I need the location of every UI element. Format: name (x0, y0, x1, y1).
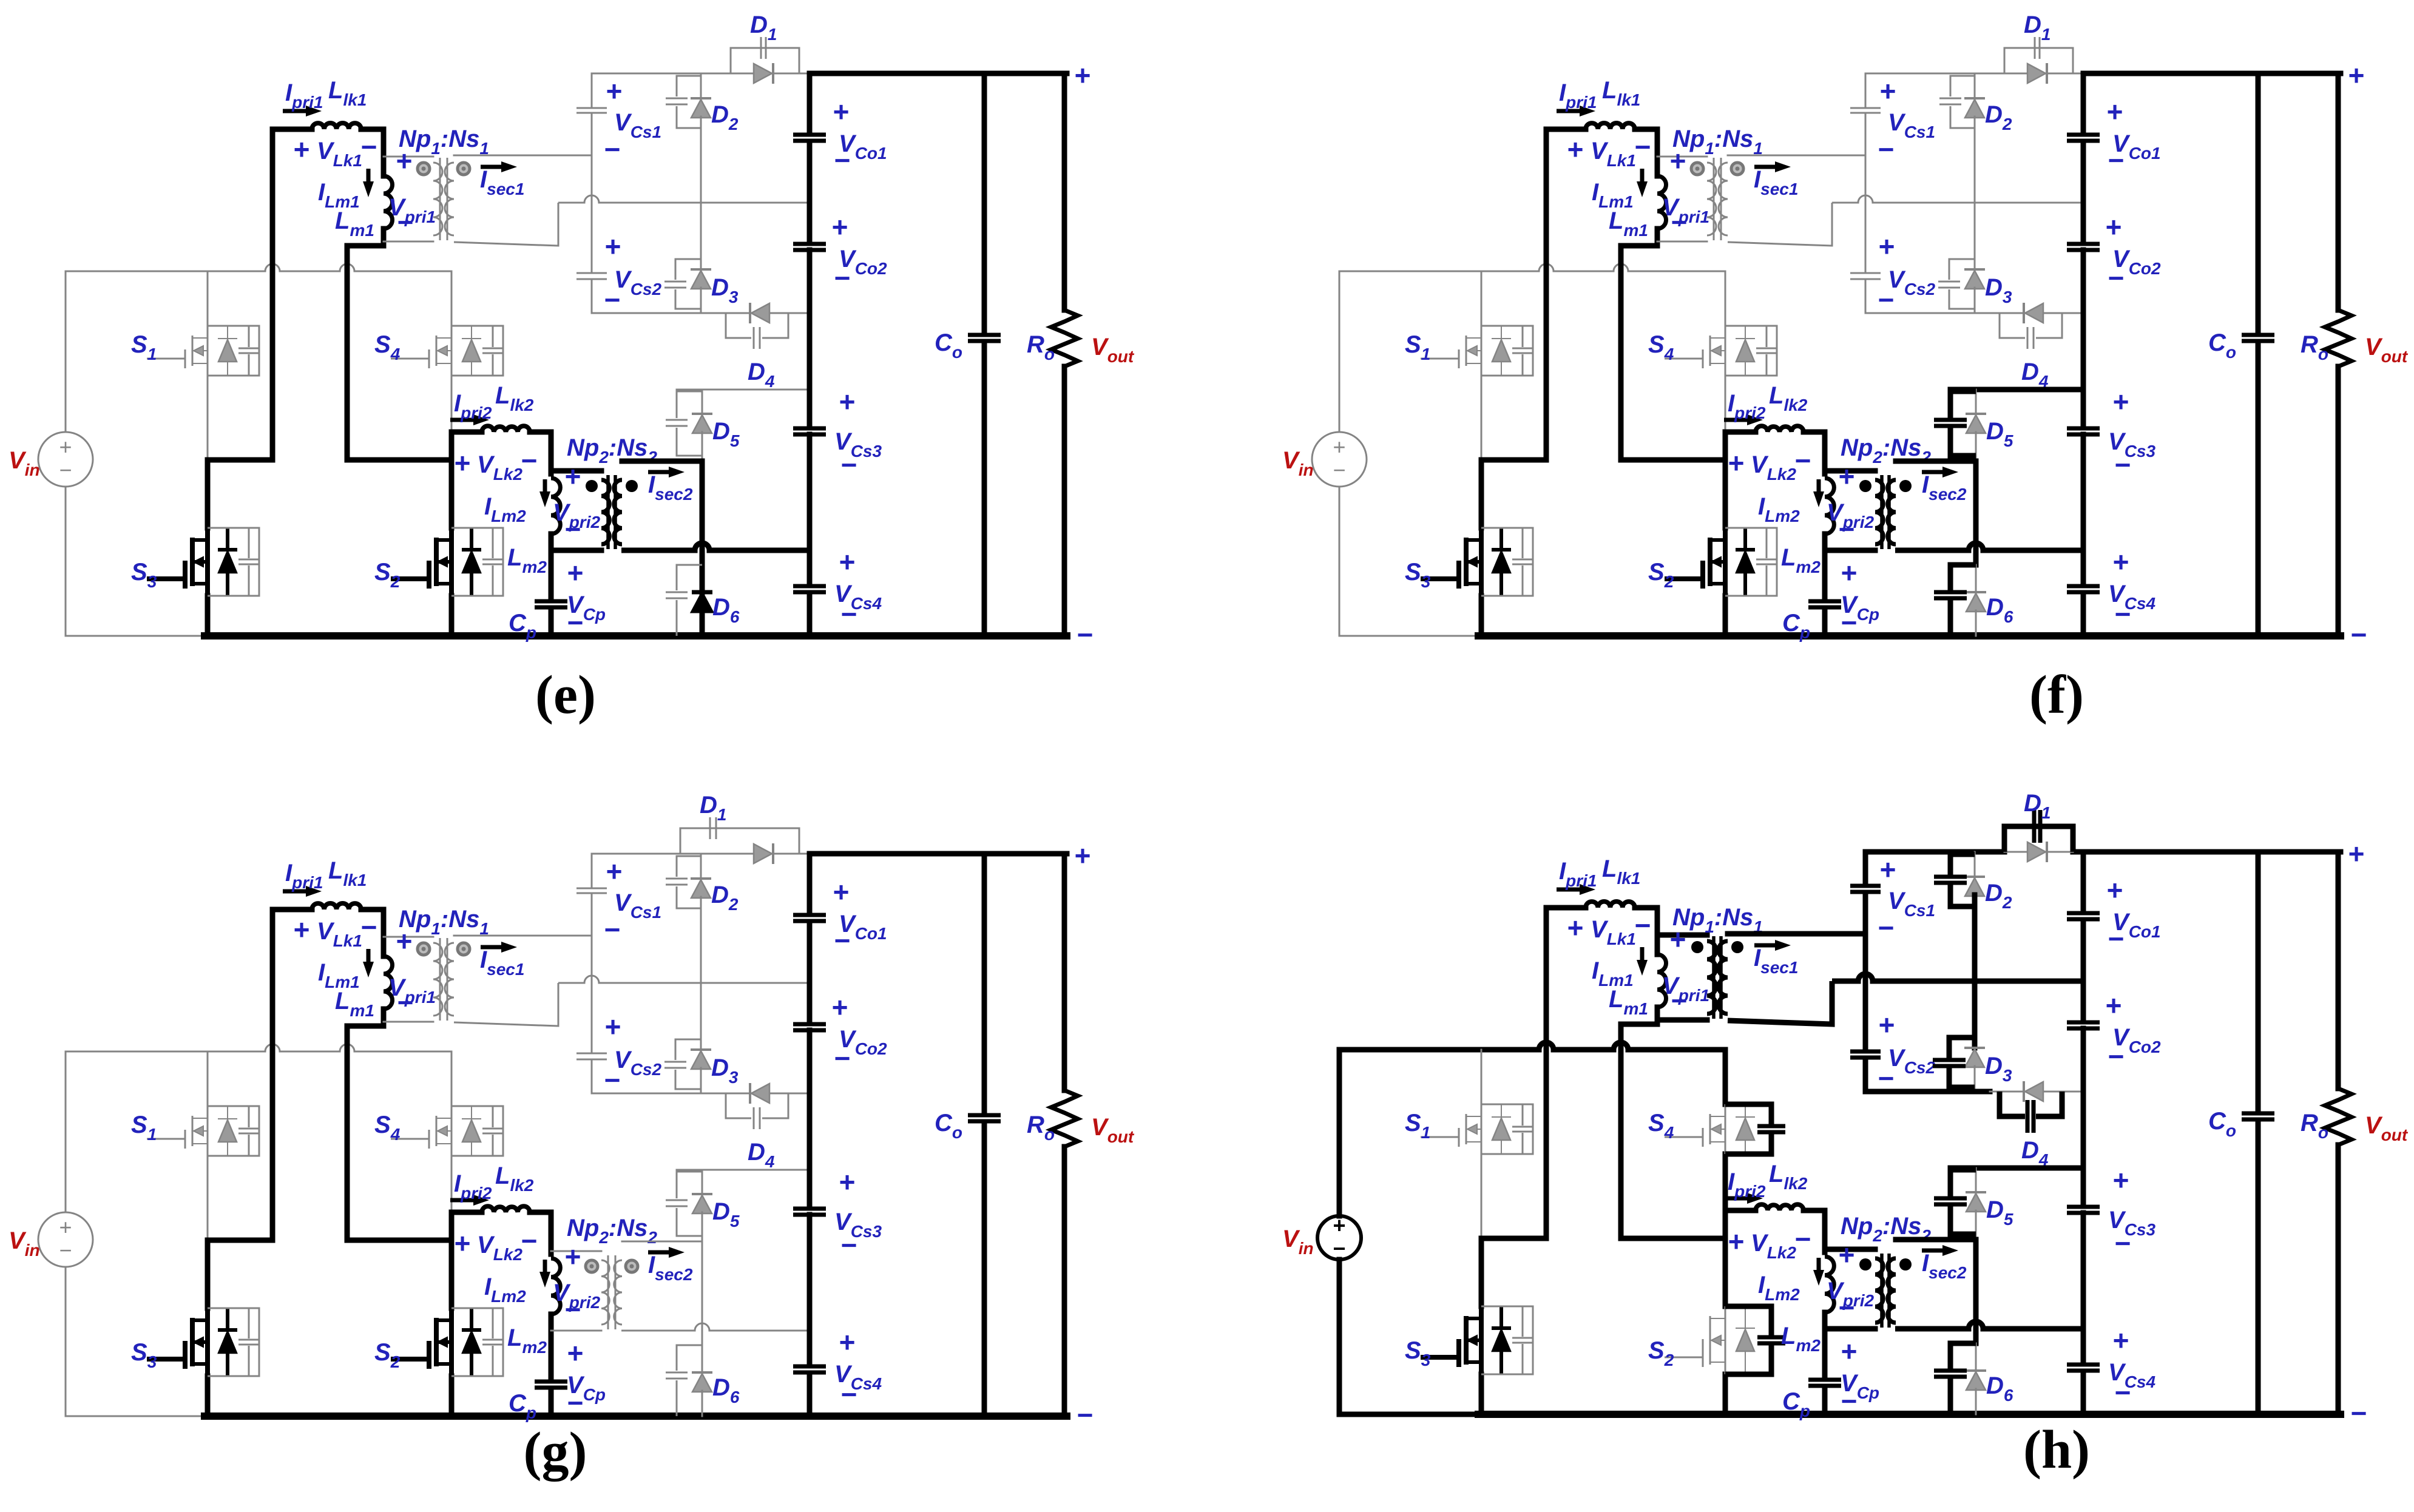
wire sec1 bottom (454, 983, 558, 1026)
wire right edge upper (2336, 852, 2341, 1088)
panel (h) (1282, 790, 2409, 1480)
svg-text:+: + (1880, 854, 1896, 885)
wire Cs2 bottom row (1865, 312, 1990, 314)
svg-text:−: − (565, 1294, 581, 1325)
wire D3 anode (1974, 1066, 1976, 1092)
wire mid node line (558, 195, 810, 203)
capacitor Co (968, 333, 1001, 337)
svg-text:−: − (834, 925, 851, 956)
transistor S4 (1725, 1104, 1726, 1154)
wire D2 snubber top (677, 856, 701, 877)
capacitor Cs2 (576, 272, 607, 274)
wire Llk1 right (361, 127, 384, 132)
wire sec1 top (454, 155, 592, 157)
wire D6 snubber top (677, 565, 702, 590)
wire D2 anode (1972, 895, 1978, 981)
voltage source Vin (1312, 432, 1367, 487)
wire Cs1 bottom (591, 114, 593, 155)
wire D3 cathode (1972, 981, 1978, 1048)
diode D2 (1964, 876, 1985, 878)
svg-text:−: − (397, 987, 414, 1018)
wire secondary top line right (799, 73, 810, 75)
svg-text:(h): (h) (2023, 1420, 2090, 1480)
arrow Ipri1 (1557, 109, 1580, 113)
wire Co column lower (982, 342, 987, 636)
inductor Llk1 (312, 123, 361, 129)
wire D4 row left (1990, 312, 2000, 314)
wire D4 snubber right (762, 313, 788, 338)
wire riser to Llk1 (270, 910, 276, 1240)
transistor S3 (1479, 1306, 1484, 1374)
wire Lm2 to Cp (1822, 1320, 1828, 1377)
wire Cs2 bottom row (1865, 1089, 1990, 1095)
wire S3 to rail (1479, 596, 1484, 636)
transistor S1 (207, 1106, 209, 1156)
svg-text:−: − (1839, 1292, 1855, 1323)
svg-text:+: + (565, 1241, 581, 1272)
arrow Isec2 (1922, 1249, 1942, 1253)
wire Cs4 to rail (807, 1373, 813, 1416)
svg-text:+: + (565, 461, 581, 492)
wire node B to S2 (449, 460, 455, 528)
svg-text:−: − (2351, 1397, 2367, 1429)
arrow Ipri2 (1724, 1196, 1747, 1201)
wire sec2 top (622, 459, 702, 464)
svg-text:+: + (2113, 546, 2129, 578)
capacitor Cs1 (1850, 107, 1881, 109)
wire Cp to rail (1822, 1386, 1828, 1414)
diode D1 (2046, 842, 2048, 862)
wire D5 snubber bottom (1950, 428, 1976, 456)
wire D2 cathode (700, 854, 702, 879)
wire Cs1 bottom (1865, 114, 1867, 155)
capacitor D4 snubber (2027, 327, 2029, 349)
svg-text:−: − (834, 262, 851, 294)
wire secondary top line right (2073, 73, 2083, 75)
wire D5 cathode (702, 1170, 703, 1194)
capacitor D2 snubber (1939, 98, 1961, 100)
wire Vin+ up (1339, 271, 1341, 432)
wire node A (208, 1238, 272, 1243)
wire Lm1 bottom (381, 1009, 387, 1026)
wire to Lm2 (549, 432, 554, 474)
svg-text:−: − (1635, 131, 1651, 163)
wire S1 drain (1481, 1050, 1483, 1104)
wire Cs2 bottom row (592, 312, 716, 314)
svg-text:+: + (59, 434, 72, 459)
wire T1 pri bottom lead (1657, 1018, 1707, 1023)
wire D3 cathode (700, 983, 702, 1050)
wire S1 drain (1481, 271, 1483, 326)
wire Vin+ up (65, 271, 67, 432)
svg-text:(f): (f) (2029, 665, 2084, 725)
wire D2 anode (700, 116, 702, 203)
svg-text:−: − (59, 457, 72, 482)
arrow ILm1 (367, 169, 371, 181)
svg-text:−: − (2108, 262, 2125, 294)
wire Lm2 bottom (1822, 1312, 1828, 1320)
wire sec1 bottom (1728, 203, 1832, 246)
svg-text:+: + (2113, 386, 2129, 417)
capacitor Cs2 (576, 1053, 607, 1055)
wire Llk2 left (1725, 1208, 1756, 1213)
wire D1 cap branch (2004, 48, 2073, 73)
wire D6 cathode (700, 565, 705, 592)
wire to Lm1 (381, 910, 387, 956)
voltage source Vin (38, 1212, 93, 1267)
wire sec2 top to D6 (700, 461, 705, 565)
wire Co2 down (2081, 1028, 2086, 1204)
wire D6 cathode (1975, 565, 1977, 592)
wire Co2 down (2081, 250, 2086, 425)
capacitor Co2 (793, 1022, 826, 1027)
wire D5 anode (702, 432, 703, 461)
wire Lm1 to return (1621, 1022, 1657, 1027)
svg-text:+: + (1567, 912, 1584, 943)
wire top rail (1339, 264, 1725, 271)
svg-text:−: − (2115, 1377, 2131, 1408)
wire Lm1 bottom (1655, 1007, 1660, 1024)
capacitor Co1 (2067, 911, 2100, 916)
inductor Lm2 (551, 1258, 560, 1314)
wire output top rail (2083, 849, 2341, 855)
arrow ILm2 (543, 1260, 547, 1272)
wire D6 anode (1975, 610, 1977, 636)
svg-text:−: − (1841, 1385, 1858, 1417)
svg-text:(g): (g) (524, 1422, 587, 1482)
wire Lm2 bottom (549, 534, 554, 542)
capacitor D6 snubber (1934, 1369, 1967, 1373)
svg-text:−: − (2115, 1227, 2131, 1259)
wire D3 anode (700, 288, 702, 313)
svg-text:+: + (2106, 990, 2122, 1021)
wire sec1 top (454, 935, 592, 937)
wire Co column upper (982, 73, 987, 332)
wire T2 pri top lead (551, 468, 601, 474)
svg-text:−: − (397, 206, 414, 238)
svg-text:−: − (2351, 619, 2367, 650)
inductor Lm1 (1657, 176, 1666, 229)
panel (e) (8, 12, 1135, 725)
svg-text:−: − (2108, 923, 2125, 954)
wire Co column lower (982, 1122, 987, 1416)
wire S4 drain (1723, 1050, 1728, 1104)
capacitor D6 snubber (1934, 590, 1967, 595)
capacitor D3 snubber (664, 281, 686, 283)
wire D4 snubber right (762, 1093, 788, 1118)
wire Lm1 bottom (381, 229, 387, 246)
wire D5 snubber top (1950, 391, 1976, 418)
svg-text:(e): (e) (535, 665, 596, 725)
wire S2 to rail (449, 1376, 455, 1416)
diode D6 (1966, 1369, 1986, 1372)
capacitor Cs4 (2067, 584, 2100, 589)
wire D4 row left (716, 1093, 726, 1095)
svg-text:−: − (1333, 457, 1345, 482)
inductor Lm1 (384, 176, 393, 229)
inductor Lm2 (1825, 478, 1834, 534)
capacitor Co (968, 1113, 1001, 1118)
capacitor D4 snubber (2026, 1100, 2030, 1133)
wire D6 snubber top (1950, 565, 1976, 590)
wire D5 top row (677, 389, 810, 391)
wire right edge upper (1062, 73, 1067, 310)
wire D6 snubber top (677, 1345, 702, 1371)
wire Cs1 bottom (1863, 893, 1868, 933)
svg-text:+: + (1728, 1226, 1745, 1257)
wire sec2 top (1896, 1237, 1976, 1243)
svg-text:−: − (604, 133, 621, 165)
capacitor Co (2242, 333, 2274, 337)
wire D5 snubber top (677, 391, 702, 418)
wire right edge upper (2336, 73, 2341, 310)
svg-text:+: + (839, 546, 856, 578)
wire Llk1 right (1635, 905, 1657, 911)
wire Vin+ up (1337, 1050, 1342, 1216)
wire sec2 top to D6 (702, 1241, 703, 1345)
wire Cs1 bottom (591, 894, 593, 935)
wire D6 cathode (702, 1345, 703, 1372)
wire D1 cap branch (731, 48, 799, 73)
capacitor D5 snubber (666, 419, 688, 421)
arrow Ipri2 (450, 1198, 473, 1203)
arrow ILm2 (543, 479, 547, 491)
transformer T2 Np2:Ns2 (1880, 1254, 1884, 1328)
wire node B (347, 1238, 451, 1243)
wire Lm1 return (345, 1026, 350, 1240)
wire Llk2 riser (449, 1212, 455, 1240)
wire D4 snubber left (726, 313, 751, 338)
wire Lm2 to Cp (1822, 542, 1828, 598)
wire Vin- down (65, 1267, 67, 1416)
wire D5 top row (677, 1169, 810, 1171)
wire to Lm1 (1655, 908, 1660, 954)
svg-text:−: − (2115, 449, 2131, 481)
capacitor D1 snubber (709, 817, 711, 839)
wire S3 to rail (205, 596, 211, 636)
capacitor D1 snubber (2032, 810, 2037, 843)
wire D5 snubber top (677, 1172, 702, 1198)
wire node B (1621, 1236, 1725, 1241)
diode D4 (749, 303, 751, 323)
wire T1 pri top lead (1657, 933, 1707, 938)
wire node A (1481, 457, 1546, 463)
diode D3 (1964, 268, 1985, 271)
resistor Ro (2325, 1088, 2351, 1145)
wire D6 snubber bottom (1948, 1379, 1953, 1414)
wire D3 snubber top (675, 259, 701, 280)
wire D2 anode (1974, 116, 1976, 203)
wire T1 pri bottom lead (1657, 241, 1707, 243)
wire D3 snubber bottom (1949, 1068, 1975, 1087)
inductor Llk1 (1586, 123, 1635, 129)
wire D2 snubber bottom (677, 106, 701, 128)
arrow ILm1 (1640, 169, 1645, 181)
diode D2 (691, 877, 711, 880)
svg-text:−: − (521, 1225, 538, 1257)
transistor S2 (449, 1308, 454, 1376)
capacitor D2 snubber (666, 878, 688, 880)
wire D5 top row (1950, 387, 2083, 393)
svg-text:−: − (841, 449, 857, 481)
wire D5 cathode (1975, 1168, 1977, 1192)
wire Llk2 left (451, 1210, 482, 1215)
transformer T2 Np2:Ns2 (607, 1255, 609, 1329)
diode D4 (2023, 1081, 2025, 1102)
wire D3 snubber bottom (675, 289, 701, 309)
wire Lm1 to return (347, 243, 384, 249)
wire D2 anode (700, 897, 702, 983)
wire D1 through (2004, 851, 2073, 853)
wire Cs2 bottom (591, 280, 593, 313)
inductor Llk1 (1586, 902, 1635, 908)
wire top rail (1339, 1042, 1725, 1050)
arrow Ipri2 (1724, 418, 1747, 422)
capacitor D3 snubber (1933, 1058, 1966, 1062)
wire D4 snubber left (2000, 313, 2025, 338)
arrow Isec1 (481, 165, 501, 169)
svg-text:+: + (294, 914, 310, 945)
wire D2 snubber bottom (1950, 106, 1975, 128)
diode D2 (691, 97, 711, 100)
svg-text:+: + (833, 876, 850, 908)
wire Cs4 to rail (807, 593, 813, 636)
wire Cs4 to rail (2081, 593, 2086, 636)
wire D4 snubber left (726, 1093, 751, 1118)
wire S4 drain (1725, 271, 1726, 326)
wire node A to S3 (1479, 1238, 1484, 1306)
wire D6 anode (1975, 1389, 1977, 1414)
transistor S2 (449, 528, 454, 596)
svg-text:−: − (1795, 1223, 1811, 1255)
wire D6 anode (702, 1391, 703, 1416)
wire top rail (66, 1044, 451, 1051)
wire bottom rail (205, 632, 1067, 640)
svg-text:−: − (1841, 607, 1858, 638)
wire Cs2 bottom row (592, 1093, 716, 1095)
wire Lm2 bottom (549, 1314, 554, 1322)
arrow Isec1 (1754, 165, 1775, 169)
wire Llk2 riser (449, 432, 455, 460)
svg-text:+: + (605, 231, 621, 262)
svg-text:+: + (1075, 59, 1091, 91)
wire D4 row right (788, 312, 810, 314)
svg-text:−: − (361, 131, 377, 163)
wire right edge lower (1062, 366, 1067, 636)
wire Cs2 bottom (1863, 1058, 1868, 1092)
transformer T1 Np1:Ns1 (439, 158, 441, 240)
capacitor D4 snubber (753, 327, 755, 349)
wire Lm1 bottom (1655, 229, 1660, 246)
diode D5 (1966, 413, 1986, 415)
wire S1 source to node A (207, 376, 209, 460)
wire bottom rail (1478, 1411, 2341, 1418)
wire S1 drain (207, 271, 209, 326)
capacitor Cp (535, 1380, 567, 1384)
arrow Isec2 (648, 470, 669, 474)
wire node B to S2 (1723, 460, 1728, 528)
panel (g) (8, 792, 1135, 1482)
wire Cp to rail (549, 1388, 554, 1416)
arrow Ipri1 (1557, 888, 1580, 892)
svg-text:−: − (1671, 206, 1688, 238)
capacitor Cs2 (1850, 272, 1881, 274)
svg-text:+: + (396, 145, 413, 177)
wire D6 snubber top (1950, 1343, 1976, 1369)
wire D4 snubber right (2036, 313, 2062, 338)
diode D6 (692, 590, 712, 595)
wire D3 anode (1974, 288, 1976, 313)
transistor S2 (1725, 1306, 1726, 1374)
wire S2 to rail (1723, 596, 1728, 636)
wire bottom rail (205, 1412, 1067, 1420)
wire Lm1 return (1618, 1024, 1624, 1238)
diode D6 (1966, 591, 1986, 593)
wire D4 row right (788, 1093, 810, 1095)
diode D1 (772, 843, 774, 864)
wire Cs2 bottom (591, 1060, 593, 1093)
svg-text:−: − (841, 1229, 857, 1261)
capacitor Cp (1808, 1378, 1841, 1382)
wire Llk2 right (530, 1210, 551, 1215)
capacitor D1 snubber (2034, 37, 2036, 59)
svg-text:+: + (1567, 133, 1584, 165)
inductor Llk1 (312, 903, 361, 910)
wire D5 snubber bottom (1950, 1206, 1976, 1234)
wire D2 snubber top (1950, 854, 1975, 875)
transistor S2 (1723, 528, 1728, 596)
arrow ILm1 (367, 949, 371, 962)
wire Llk1 left (1546, 127, 1586, 132)
wire riser to Llk1 (1544, 129, 1549, 460)
diode D3 (691, 268, 711, 271)
wire Co column lower (2256, 342, 2261, 636)
wire riser to Llk1 (1544, 908, 1549, 1238)
svg-text:+: + (455, 1227, 471, 1259)
wire to Lm1 (1655, 129, 1660, 176)
wire to Lm2 (1822, 432, 1828, 474)
resistor Ro (1051, 1090, 1078, 1147)
capacitor Cs4 (793, 1365, 826, 1369)
capacitor Co1 (793, 133, 826, 137)
svg-text:+: + (832, 211, 848, 243)
wire D2 snubber top (677, 76, 701, 96)
wire node B to S2 (1723, 1238, 1728, 1306)
arrow Isec2 (648, 1250, 669, 1255)
wire D4 row right (2062, 1091, 2083, 1093)
arrow Ipri2 (450, 418, 473, 422)
capacitor D5 snubber (666, 1200, 688, 1201)
wire mid node line (1832, 195, 2083, 203)
wire Llk2 left (1725, 430, 1756, 435)
wire Llk1 left (272, 127, 312, 132)
arrow Ipri1 (283, 109, 306, 113)
wire D4 row left (1990, 1091, 2000, 1093)
wire sec2 top (622, 1241, 702, 1243)
svg-text:+: + (59, 1215, 72, 1240)
svg-text:+: + (2348, 838, 2365, 869)
wire secondary top line (1865, 849, 2004, 855)
wire Co1 to Co2 (2081, 141, 2086, 241)
wire sec1 top (1728, 931, 1865, 937)
wire node B to S2 (449, 1240, 455, 1308)
wire Cp to rail (549, 608, 554, 636)
wire D2 snubber top (1950, 76, 1975, 96)
wire Cs3 to Cs4 (2081, 434, 2086, 583)
wire D3 snubber bottom (675, 1070, 701, 1089)
resistor Ro (1051, 310, 1078, 366)
wire D4 snubber right (2036, 1092, 2062, 1116)
